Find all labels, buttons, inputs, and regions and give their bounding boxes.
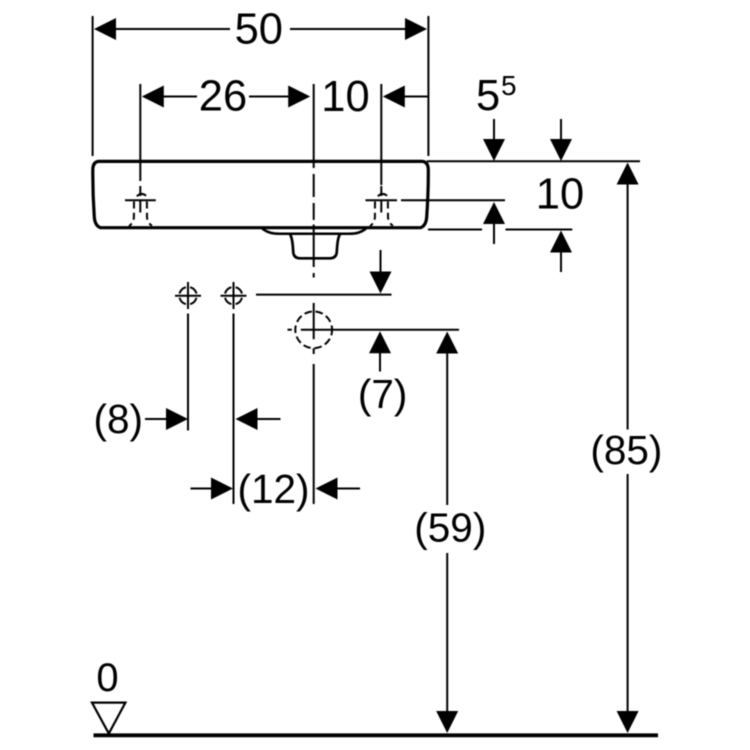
dim line (85) lower with down arrow: [617, 474, 639, 733]
svg-text:10: 10: [321, 73, 369, 121]
extension line left faucet: [139, 84, 141, 181]
label 50: [235, 6, 283, 54]
svg-text:5: 5: [476, 72, 500, 120]
svg-text:10: 10: [536, 171, 584, 219]
up arrow of right dim 10: [550, 231, 572, 273]
waste outlet dashed circle: [295, 311, 332, 348]
drop line from fixing hole 2: [233, 314, 235, 505]
tap hole right dashed: [370, 186, 393, 226]
centre line through basin and drain: [313, 174, 315, 278]
svg-text:(7): (7): [358, 371, 408, 417]
washbasin outline: [93, 161, 429, 227]
waste circle crosshair dash left: [288, 329, 292, 331]
dim line (59) lower with down arrow: [436, 553, 458, 733]
label 26: [199, 73, 247, 121]
dim line 26 with arrows: [142, 86, 310, 108]
label 5 exp 5: [476, 70, 517, 120]
left arrow of dim (12): [316, 478, 361, 500]
label 0: [96, 656, 118, 700]
svg-text:(8): (8): [94, 396, 144, 442]
svg-text:26: 26: [199, 73, 247, 121]
svg-text:50: 50: [235, 6, 283, 54]
right arrow of dim (8): [145, 408, 188, 430]
extension line right faucet: [380, 84, 382, 185]
label 10 right: [536, 171, 584, 219]
fixing hole 1 dashed circle crosshair: [175, 282, 201, 309]
tap hole left dashed: [125, 186, 156, 226]
floor line: [94, 733, 659, 737]
extension line right of dim 50: [427, 16, 429, 156]
left arrow at fixing hole 2 line: [236, 408, 281, 430]
svg-text:(85): (85): [590, 427, 662, 473]
extension line basin centre: [313, 84, 315, 168]
extension line left of dim 50: [92, 16, 94, 156]
arrow pointing left at right faucet line: [383, 86, 428, 108]
drain trap pipe: [290, 233, 341, 258]
down arrow below 5^5: [483, 119, 505, 161]
label (12): [237, 466, 309, 512]
drop line from fixing hole 1: [187, 314, 189, 431]
svg-text:5: 5: [501, 70, 517, 101]
up arrow of dim (7): [369, 331, 391, 371]
faucet plane reference line: [366, 199, 506, 201]
svg-text:0: 0: [96, 656, 118, 700]
dim line (59) upper with up arrow: [436, 332, 458, 506]
datum zero triangle: [92, 703, 125, 734]
label (59): [414, 505, 486, 551]
down arrow at fixing hole line: [370, 250, 392, 294]
fixing hole reference line: [256, 294, 392, 296]
drain boss: [262, 229, 366, 234]
waste outlet reference line: [301, 329, 459, 331]
dim line 50 right segment with right arrow: [290, 18, 427, 40]
dim line (85) upper with up arrow: [617, 163, 639, 430]
basin bottom reference line: [428, 229, 572, 231]
centre line through waste circle down: [313, 303, 315, 504]
down arrow of right dim 10: [550, 119, 572, 161]
label (7): [358, 371, 408, 417]
svg-text:(12): (12): [237, 466, 309, 512]
right arrow of dim (12): [191, 478, 234, 500]
label 10 top: [321, 73, 369, 121]
svg-text:(59): (59): [414, 505, 486, 551]
dim line 50 left segment with left arrow: [94, 18, 230, 40]
up arrow of 5^5 at faucet plane: [483, 202, 505, 244]
fixing hole 2 dashed circle crosshair: [221, 282, 247, 309]
rim top reference line: [427, 160, 640, 162]
label (8): [94, 396, 144, 442]
label (85): [590, 427, 662, 473]
